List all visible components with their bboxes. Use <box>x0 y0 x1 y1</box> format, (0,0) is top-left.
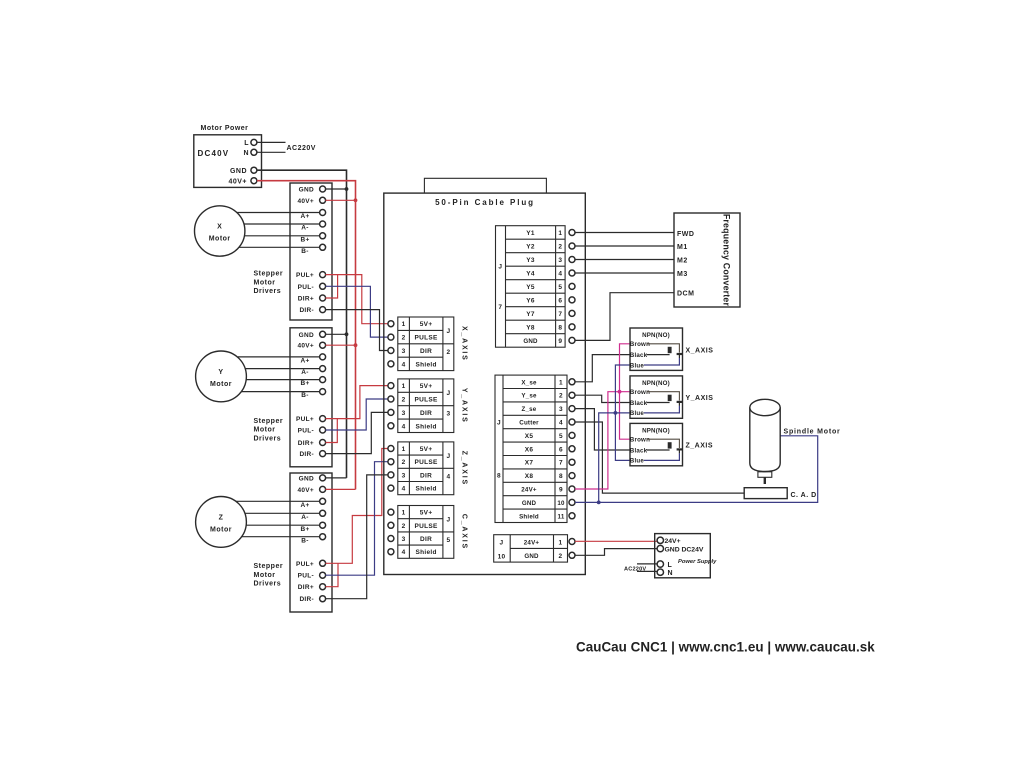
sensor B2 NPN Y axis <box>630 376 714 418</box>
svg-text:Drivers: Drivers <box>254 581 282 588</box>
svg-text:PUL-: PUL- <box>298 573 314 580</box>
svg-text:Motor: Motor <box>210 381 232 388</box>
svg-text:1: 1 <box>558 230 562 237</box>
svg-text:B-: B- <box>301 392 308 399</box>
wire driver2 DIR+ tie to PUL+ <box>326 419 338 443</box>
svg-text:J: J <box>446 517 450 524</box>
svg-text:1: 1 <box>402 446 406 453</box>
svg-text:Y1: Y1 <box>526 230 535 237</box>
wire Y motor B- <box>242 391 320 393</box>
svg-text:8: 8 <box>497 473 501 480</box>
wire driver1 GND to bus <box>326 188 347 190</box>
wire GND to spindle (blue) <box>575 436 818 503</box>
tool sensor C.A.D <box>744 488 787 499</box>
svg-text:3: 3 <box>402 536 406 543</box>
svg-text:Motor: Motor <box>209 236 231 243</box>
svg-text:Blue: Blue <box>630 410 645 417</box>
svg-text:5: 5 <box>558 284 562 291</box>
stepper driver U2 (X axis) <box>290 183 332 320</box>
svg-text:PULSE: PULSE <box>415 397 439 404</box>
svg-text:B+: B+ <box>300 526 309 533</box>
svg-text:5V+: 5V+ <box>420 321 433 328</box>
connector J7 (Y1-Y8,GND) <box>496 226 576 348</box>
connector J3 Y_AXIS <box>388 379 468 433</box>
junction driver2 GND <box>345 332 349 336</box>
power supply U1 Motor Power DC40V <box>194 125 262 188</box>
svg-text:Power Supply: Power Supply <box>678 559 717 565</box>
svg-text:Y_se: Y_se <box>521 393 537 400</box>
svg-text:Motor: Motor <box>210 526 232 533</box>
svg-text:5V+: 5V+ <box>420 383 433 390</box>
svg-text:Brown: Brown <box>630 436 650 443</box>
svg-text:M3: M3 <box>677 271 688 278</box>
svg-text:DIR-: DIR- <box>299 451 314 458</box>
svg-text:Brown: Brown <box>630 341 650 348</box>
svg-text:2: 2 <box>446 349 450 356</box>
svg-text:A-: A- <box>301 514 308 521</box>
connector J8 (X_se..Shield) <box>495 375 575 522</box>
svg-text:FWD: FWD <box>677 231 694 238</box>
wire X motor A+ <box>237 212 320 214</box>
wire J10 pin1 24V+ to power supply (red) <box>575 540 657 542</box>
svg-text:2: 2 <box>402 459 406 466</box>
svg-text:Y7: Y7 <box>526 311 535 318</box>
svg-text:Brown: Brown <box>630 389 650 396</box>
svg-text:Shield: Shield <box>415 361 436 368</box>
svg-text:X_se: X_se <box>521 379 537 386</box>
svg-text:6: 6 <box>559 446 563 453</box>
junction blue bus <box>614 411 618 415</box>
svg-text:PUL-: PUL- <box>298 284 314 291</box>
svg-text:DIR: DIR <box>420 410 432 417</box>
svg-text:GND: GND <box>522 500 537 507</box>
wire driver3 40V+ to bus <box>326 488 356 490</box>
svg-text:DIR: DIR <box>420 348 432 355</box>
svg-text:C_AXIS: C_AXIS <box>461 514 468 550</box>
svg-text:4: 4 <box>559 420 563 427</box>
box DC40V <box>194 135 262 188</box>
svg-text:Z: Z <box>219 514 224 521</box>
svg-text:C. A. D: C. A. D <box>791 492 817 499</box>
svg-text:24V+: 24V+ <box>521 487 537 494</box>
connector J4 Z_AXIS <box>388 442 468 495</box>
junction driver2 40V+ <box>354 343 358 347</box>
svg-text:11: 11 <box>558 513 565 520</box>
junction brown bus <box>618 390 622 394</box>
svg-text:NPN(NO): NPN(NO) <box>642 380 670 387</box>
svg-text:2: 2 <box>402 523 406 530</box>
svg-text:DIR-: DIR- <box>299 596 314 603</box>
svg-text:4: 4 <box>402 486 406 493</box>
wire driver2 DIR- to J3 pin3 <box>326 412 388 453</box>
junction driver1 40V+ <box>354 198 358 202</box>
svg-text:4: 4 <box>402 361 406 368</box>
svg-text:Y_AXIS: Y_AXIS <box>686 395 714 402</box>
svg-text:Y3: Y3 <box>526 257 535 264</box>
svg-text:1: 1 <box>402 383 406 390</box>
wire 40V+ bus from DC40V (red) <box>257 181 356 490</box>
svg-text:AC220V: AC220V <box>287 145 316 152</box>
wire Y motor A- <box>245 368 319 370</box>
svg-text:Shield: Shield <box>415 423 436 430</box>
svg-text:Stepper: Stepper <box>254 563 284 570</box>
wire driver1 40V+ to bus <box>326 199 356 201</box>
svg-text:J: J <box>498 264 502 271</box>
wire Y motor A+ <box>238 356 320 358</box>
svg-text:5V+: 5V+ <box>420 510 433 517</box>
svg-text:Y: Y <box>218 369 223 376</box>
svg-text:1: 1 <box>402 321 406 328</box>
wire AC220V L <box>637 563 657 565</box>
svg-text:7: 7 <box>558 311 562 318</box>
svg-text:24V+: 24V+ <box>665 538 681 545</box>
svg-text:X8: X8 <box>525 473 534 480</box>
sensor B1 NPN X axis <box>630 328 714 370</box>
svg-text:6: 6 <box>558 298 562 305</box>
wire X motor B- <box>239 246 320 248</box>
svg-text:B-: B- <box>301 537 308 544</box>
wire driver3 GND to bus <box>326 477 347 479</box>
svg-text:3: 3 <box>558 257 562 264</box>
svg-text:3: 3 <box>402 472 406 479</box>
wire Z_se to Z sensor black <box>575 409 630 450</box>
svg-text:3: 3 <box>446 411 450 418</box>
svg-text:7: 7 <box>498 304 502 311</box>
svg-text:PULSE: PULSE <box>415 459 439 466</box>
wire driver2 40V+ to bus <box>326 344 356 346</box>
svg-text:Black: Black <box>630 400 648 407</box>
svg-text:9: 9 <box>559 487 563 494</box>
wire driver3 DIR+ tie to PUL+ <box>326 563 339 586</box>
svg-text:3: 3 <box>559 406 563 413</box>
svg-text:Y5: Y5 <box>526 284 535 291</box>
svg-text:Y6: Y6 <box>526 298 535 305</box>
svg-text:Shield: Shield <box>415 486 436 493</box>
wire J7 pin3 Y3 to M2 <box>575 259 674 261</box>
wire X motor A- <box>244 223 320 225</box>
connector P1 top tab <box>424 178 546 193</box>
svg-text:DIR-: DIR- <box>299 307 314 314</box>
wire driver3 PUL- to J4 pin2 <box>326 462 388 576</box>
wire X motor B+ <box>244 235 319 237</box>
svg-text:5: 5 <box>559 433 563 440</box>
motor M3 Z Motor <box>196 497 247 548</box>
svg-text:3: 3 <box>402 348 406 355</box>
svg-text:DIR: DIR <box>420 536 432 543</box>
svg-text:X_AXIS: X_AXIS <box>686 347 714 354</box>
svg-text:N: N <box>668 570 674 577</box>
svg-text:DC40V: DC40V <box>198 149 230 158</box>
connector J2 X_AXIS <box>388 317 468 371</box>
motor M2 Y Motor <box>196 351 247 402</box>
wire Z motor B+ <box>246 524 319 526</box>
svg-text:40V+: 40V+ <box>228 178 247 185</box>
svg-text:Shield: Shield <box>415 549 436 556</box>
svg-text:PUL+: PUL+ <box>296 416 314 423</box>
svg-text:Z_AXIS: Z_AXIS <box>461 451 468 486</box>
svg-text:Y4: Y4 <box>526 271 535 278</box>
svg-text:A-: A- <box>301 225 308 232</box>
svg-text:NPN(NO): NPN(NO) <box>642 428 670 435</box>
svg-text:2: 2 <box>559 553 563 560</box>
wire Z motor A- <box>245 512 320 514</box>
svg-text:Motor: Motor <box>254 427 276 434</box>
svg-text:40V+: 40V+ <box>297 487 314 494</box>
svg-text:Y2: Y2 <box>526 244 535 251</box>
svg-text:PULSE: PULSE <box>415 335 439 342</box>
svg-text:Drivers: Drivers <box>254 436 282 443</box>
svg-text:DIR+: DIR+ <box>298 584 314 591</box>
svg-text:5V+: 5V+ <box>420 446 433 453</box>
svg-text:PUL+: PUL+ <box>296 561 314 568</box>
svg-text:40V+: 40V+ <box>297 198 314 205</box>
svg-text:Black: Black <box>630 352 648 359</box>
svg-text:J: J <box>446 328 450 335</box>
junction driver1 GND <box>345 187 349 191</box>
power supply U6 DC24V <box>655 534 717 578</box>
connector J10 (24V+,GND) <box>494 535 575 562</box>
svg-text:B+: B+ <box>300 236 309 243</box>
svg-text:M1: M1 <box>677 244 688 251</box>
svg-text:Blue: Blue <box>630 362 645 369</box>
svg-text:4: 4 <box>402 549 406 556</box>
svg-text:Stepper: Stepper <box>254 418 284 425</box>
wire 24V+ to sensors brown (magenta) <box>575 392 630 489</box>
wire driver1 PUL- to J2 pin2 <box>326 286 388 337</box>
wire J7 pin9 GND to DCM <box>575 293 674 341</box>
svg-text:DCM: DCM <box>677 291 694 298</box>
svg-text:GND: GND <box>230 168 247 175</box>
stepper driver U3 (Y axis) <box>290 328 332 467</box>
svg-text:Blue: Blue <box>630 458 645 465</box>
svg-text:J: J <box>446 390 450 397</box>
svg-text:Cutter: Cutter <box>519 420 539 427</box>
wire sensor blue bus <box>615 365 630 460</box>
svg-text:X: X <box>217 224 222 231</box>
svg-text:X7: X7 <box>525 460 534 467</box>
svg-text:Y8: Y8 <box>526 325 535 332</box>
svg-text:8: 8 <box>558 325 562 332</box>
svg-text:GND: GND <box>299 332 314 339</box>
label Stepper Motor Drivers (X) <box>254 271 284 296</box>
wire N to AC220V <box>257 151 286 153</box>
wire driver3 DIR- to J4 pin3 <box>326 475 388 599</box>
svg-text:GND: GND <box>299 187 314 194</box>
wire Z motor A+ <box>236 500 320 502</box>
svg-text:9: 9 <box>558 338 562 345</box>
svg-text:Motor Power: Motor Power <box>201 125 249 132</box>
svg-text:1: 1 <box>559 539 563 546</box>
wire J7 pin1 Y1 to FWD <box>575 232 674 234</box>
svg-text:2: 2 <box>559 393 563 400</box>
label Stepper Motor Drivers (Z) <box>254 563 284 588</box>
svg-text:5: 5 <box>446 537 450 544</box>
svg-text:7: 7 <box>559 460 563 467</box>
svg-text:GND: GND <box>299 475 314 482</box>
svg-text:DIR: DIR <box>420 472 432 479</box>
svg-text:GND: GND <box>523 338 538 345</box>
svg-text:Spindle Motor: Spindle Motor <box>784 428 841 435</box>
sensor B3 NPN Z axis <box>630 423 713 465</box>
wire driver2 PUL- to J3 pin2 <box>326 399 388 430</box>
svg-text:CauCau CNC1 | www.cnc1.eu | ww: CauCau CNC1 | www.cnc1.eu | www.caucau.s… <box>576 639 875 654</box>
wire Y motor B+ <box>246 379 319 381</box>
wire driver1 DIR+ tie to PUL+ <box>326 275 338 298</box>
svg-text:A+: A+ <box>300 502 309 509</box>
svg-text:10: 10 <box>557 500 565 507</box>
wire driver2 GND to bus <box>326 333 347 335</box>
svg-text:X6: X6 <box>525 446 534 453</box>
svg-text:NPN(NO): NPN(NO) <box>642 332 670 339</box>
wire J7 pin2 Y2 to M1 <box>575 245 674 247</box>
svg-text:A-: A- <box>301 369 308 376</box>
motor M1 X Motor <box>195 206 245 256</box>
label Stepper Motor Drivers (Y) <box>254 418 284 443</box>
svg-text:A+: A+ <box>300 358 309 365</box>
svg-text:PUL+: PUL+ <box>296 272 314 279</box>
svg-text:2: 2 <box>402 397 406 404</box>
svg-text:2: 2 <box>402 335 406 342</box>
svg-text:8: 8 <box>559 473 563 480</box>
wire Y_se to Y sensor black <box>575 395 630 402</box>
svg-text:L: L <box>668 562 673 569</box>
svg-text:DIR+: DIR+ <box>298 296 314 303</box>
wire driver1 PUL+ to J2 pin1 <box>326 275 388 324</box>
svg-text:Motor: Motor <box>254 279 276 286</box>
svg-text:N: N <box>243 150 249 157</box>
wire J10 pin2 GND to power supply <box>575 549 657 556</box>
svg-text:10: 10 <box>498 554 506 561</box>
svg-text:1: 1 <box>402 510 406 517</box>
wire X_se to X sensor black <box>575 355 630 382</box>
svg-text:4: 4 <box>446 473 450 480</box>
wire Cutter to C.A.D <box>575 422 744 493</box>
svg-text:M2: M2 <box>677 258 688 265</box>
wire J7 pin4 Y4 to M3 <box>575 272 674 274</box>
junction blue at GND wire <box>597 501 601 505</box>
svg-text:GND DC24V: GND DC24V <box>665 547 704 554</box>
wire L to AC220V <box>257 141 286 143</box>
svg-text:L: L <box>244 140 249 147</box>
svg-text:J: J <box>500 539 504 546</box>
wire AC220V N <box>637 570 657 572</box>
svg-text:Stepper: Stepper <box>254 271 284 278</box>
svg-text:PUL-: PUL- <box>298 428 314 435</box>
svg-text:Shield: Shield <box>519 513 539 520</box>
svg-text:A+: A+ <box>300 213 309 220</box>
connector J5 C_AXIS <box>388 506 468 559</box>
svg-text:Frequency Converter: Frequency Converter <box>722 214 732 307</box>
svg-text:1: 1 <box>559 379 563 386</box>
motor M4 spindle <box>750 399 780 484</box>
svg-text:PULSE: PULSE <box>415 523 439 530</box>
svg-text:B-: B- <box>301 248 308 255</box>
wire sensor brown bus (magenta) <box>620 344 631 439</box>
connector P1 50-Pin Cable Plug outline <box>384 193 586 574</box>
frequency converter U5 <box>674 213 740 307</box>
svg-text:Drivers: Drivers <box>254 288 282 295</box>
svg-text:J: J <box>446 453 450 460</box>
svg-text:4: 4 <box>558 271 562 278</box>
wire GND bus from DC40V <box>257 170 347 478</box>
svg-text:Motor: Motor <box>254 572 276 579</box>
wire GND to sensors blue riser <box>599 413 630 503</box>
svg-text:24V+: 24V+ <box>524 539 540 546</box>
wire driver2 PUL+ to J3 pin1 <box>326 386 388 419</box>
svg-text:Black: Black <box>630 447 648 454</box>
wire driver1 DIR- to J2 pin3 <box>326 310 388 351</box>
wire Z motor B- <box>242 536 320 538</box>
svg-text:50-Pin Cable Plug: 50-Pin Cable Plug <box>435 198 535 207</box>
svg-text:X_AXIS: X_AXIS <box>461 326 468 362</box>
svg-text:GND: GND <box>524 553 539 560</box>
stepper driver U4 (Z axis) <box>290 473 332 612</box>
svg-text:B+: B+ <box>300 380 309 387</box>
svg-text:Y_AXIS: Y_AXIS <box>461 388 468 424</box>
svg-text:X5: X5 <box>525 433 534 440</box>
svg-text:2: 2 <box>558 244 562 251</box>
wire driver3 PUL+ to J4 pin1 <box>326 449 388 564</box>
svg-text:3: 3 <box>402 410 406 417</box>
svg-text:Z_AXIS: Z_AXIS <box>686 443 714 450</box>
svg-text:40V+: 40V+ <box>297 343 314 350</box>
svg-text:4: 4 <box>402 423 406 430</box>
svg-text:DIR+: DIR+ <box>298 440 314 447</box>
svg-text:J: J <box>497 420 501 427</box>
svg-text:Z_se: Z_se <box>522 406 537 413</box>
